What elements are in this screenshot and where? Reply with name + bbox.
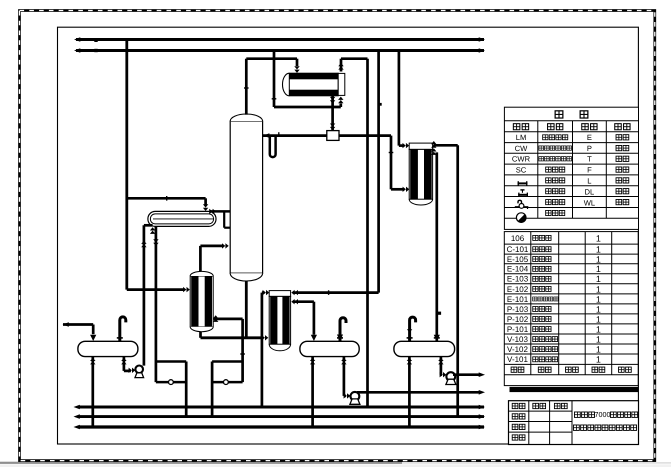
- trap circle left: [169, 380, 174, 385]
- svg-text:CWR: CWR: [512, 155, 531, 164]
- cooler E-104 body: [409, 149, 432, 199]
- svg-text:1: 1: [596, 355, 601, 365]
- pipe bottoms drain drop: [241, 319, 244, 382]
- pipe CW into condenser right head bottom: [273, 51, 276, 108]
- drawing title text: [574, 412, 580, 417]
- pipe top header CW: [76, 49, 484, 52]
- pipe bottom header C: [79, 425, 484, 428]
- pipe V-101 bottom to header C: [91, 357, 94, 427]
- separator black bar: [510, 387, 639, 392]
- reboiler E-103 body: [190, 276, 213, 327]
- node chevron V-102 vent: [337, 335, 343, 341]
- node tick on distillate drop: [389, 152, 394, 153]
- pipe V-101 to pump P-101: [123, 357, 126, 371]
- svg-text:SC: SC: [516, 166, 527, 175]
- svg-text:T: T: [587, 155, 592, 164]
- svg-text:E-101: E-101: [507, 295, 529, 304]
- node square on header CW: [94, 49, 97, 52]
- vent hook tank V-101: [120, 317, 126, 341]
- svg-text:F: F: [587, 166, 592, 175]
- svg-text:V-101: V-101: [507, 355, 528, 364]
- pipe V-102 bottom to header C: [311, 357, 314, 427]
- node square on header LM: [94, 39, 97, 42]
- pipe CWR long drop to header A: [366, 59, 369, 407]
- feed internal downcomer: [223, 211, 225, 227]
- svg-text:1: 1: [596, 344, 601, 354]
- node tick on product line: [438, 312, 441, 315]
- pipe E-103 liquid feed: [214, 318, 243, 321]
- svg-text:1: 1: [596, 284, 601, 294]
- page bottom edge shadow: [0, 462, 402, 464]
- pipe column bottom drop: [245, 281, 248, 338]
- steam trap loop left: [156, 360, 186, 363]
- pipe P-103 discharge product: [453, 373, 479, 376]
- pipe distillate splitter to cooler: [339, 134, 392, 137]
- pipe V-102 to pump P-102: [343, 357, 346, 396]
- pipe E-103 vapor return to column: [199, 246, 202, 271]
- pipe P-101 discharge to coil: [143, 225, 146, 365]
- pipe raw feed inlet: [63, 323, 93, 326]
- pump P-103: [446, 372, 455, 381]
- pump P-101: [135, 366, 143, 374]
- vent hook tank V-102: [340, 318, 346, 342]
- node tick on CWR line: [328, 290, 329, 295]
- node tick on steam branch: [166, 196, 167, 201]
- waste tank V-102: [300, 341, 359, 356]
- condenser E-105 channel head: [338, 73, 345, 95]
- svg-text:1: 1: [596, 294, 601, 304]
- svg-text:1: 1: [596, 245, 601, 255]
- pipe E-102 outlet to tank V-102: [291, 299, 298, 304]
- svg-text:1: 1: [596, 324, 601, 334]
- svg-text:1: 1: [596, 304, 601, 314]
- inner drawing frame: [58, 27, 639, 444]
- cooler E-102 head: [269, 291, 290, 297]
- svg-text:P-102: P-102: [507, 315, 529, 324]
- pipe CWR E-102 head right: [291, 290, 298, 295]
- equipment header row: [511, 367, 517, 372]
- trap circle right: [224, 380, 229, 385]
- pipe CWR cooler E-104 to header B: [431, 141, 436, 148]
- pipe vapor column to condenser: [245, 59, 248, 115]
- pipe steam to reboiler E-103: [127, 288, 185, 291]
- product tank V-103: [394, 341, 455, 356]
- legend sample point symbol: [515, 206, 529, 208]
- pipe bottoms to E-102 cooler: [199, 332, 202, 338]
- condenser E-105 shell: [283, 73, 290, 96]
- legend steam trap symbol: [516, 213, 526, 223]
- legend name text: [543, 135, 548, 140]
- column C-101 shell: [230, 121, 262, 273]
- svg-text:1: 1: [596, 314, 601, 324]
- svg-text:V-102: V-102: [507, 345, 528, 354]
- pipe CW to cooler E-104 head: [398, 51, 401, 146]
- svg-text:CW: CW: [515, 144, 528, 153]
- svg-text:1: 1: [596, 274, 601, 284]
- svg-text:L: L: [587, 176, 591, 185]
- node chevron on discharge: [141, 241, 146, 248]
- pipe top header LM: [76, 38, 484, 41]
- node flange V-103 vent: [407, 337, 413, 339]
- svg-text:106: 106: [511, 234, 525, 243]
- title block grid: [509, 401, 639, 445]
- pipe product cooler E-104 to tank V-103: [431, 148, 436, 155]
- svg-text:1: 1: [596, 334, 601, 344]
- pipe CW riser to E-102 head: [261, 293, 264, 407]
- vent hook tank V-103: [410, 317, 416, 341]
- node tick on vapor line: [244, 87, 249, 88]
- node square on CWR riser: [379, 103, 382, 106]
- svg-text:1: 1: [596, 233, 601, 243]
- svg-text:1: 1: [596, 264, 601, 274]
- pump P-102: [351, 392, 360, 401]
- node flange V-102 vent: [337, 337, 343, 339]
- node tick on reflux line: [278, 132, 279, 135]
- preheater coil E-101: [148, 211, 216, 226]
- svg-text:E: E: [587, 133, 592, 142]
- legend stop valve symbol: [518, 181, 519, 185]
- legend control valve symbol: [518, 193, 519, 197]
- pipe steam main drop: [125, 40, 128, 290]
- reflux seal loop: [270, 136, 276, 158]
- legend table grid: [504, 107, 638, 229]
- steam trap loop right: [212, 360, 243, 363]
- svg-text:C-101: C-101: [507, 245, 529, 254]
- svg-text:V-103: V-103: [507, 335, 528, 344]
- pipe reflux to column top: [263, 134, 328, 137]
- node chevron V-103 vent: [407, 329, 412, 332]
- feed tank V-101: [78, 341, 138, 356]
- svg-text:E-105: E-105: [507, 255, 529, 264]
- svg-text:WL: WL: [584, 198, 595, 207]
- svg-text:E-102: E-102: [507, 285, 529, 294]
- svg-text:E-103: E-103: [507, 275, 529, 284]
- cooler E-102 body: [269, 296, 290, 344]
- pipe V-103 bottom to header C: [408, 357, 411, 427]
- svg-text:7000: 7000: [595, 410, 611, 419]
- pipe CWR out of condenser top: [338, 63, 343, 70]
- svg-text:E-104: E-104: [507, 265, 529, 274]
- svg-text:1: 1: [596, 254, 601, 264]
- pipe feed coil to column: [211, 210, 231, 213]
- svg-text:LM: LM: [516, 133, 527, 142]
- svg-text:P: P: [587, 144, 592, 153]
- reflux splitter box 106: [327, 131, 339, 141]
- title block labels: [512, 403, 518, 408]
- equipment table grid: [504, 232, 638, 386]
- svg-text:DL: DL: [585, 188, 595, 197]
- pipe coil condensate drop: [155, 226, 158, 382]
- pipe bottom header A: [79, 406, 484, 409]
- node flange V-101 vent: [117, 337, 123, 339]
- node tick on CW drop: [272, 98, 277, 99]
- pipe distillate condenser to splitter: [331, 96, 334, 131]
- pipe P-102 discharge waste: [357, 391, 479, 394]
- pipe V-103 to pump P-103: [440, 357, 443, 375]
- node flange at tank V-103 inlet: [434, 335, 440, 341]
- pipe steam branch to coil E-101: [127, 197, 206, 200]
- svg-text:P-101: P-101: [507, 325, 529, 334]
- node tick on drain: [240, 353, 245, 354]
- cooler E-104 head: [409, 143, 432, 149]
- legend header text: [555, 111, 563, 118]
- pipe bottom header B: [79, 415, 484, 418]
- svg-text:P-103: P-103: [507, 305, 529, 314]
